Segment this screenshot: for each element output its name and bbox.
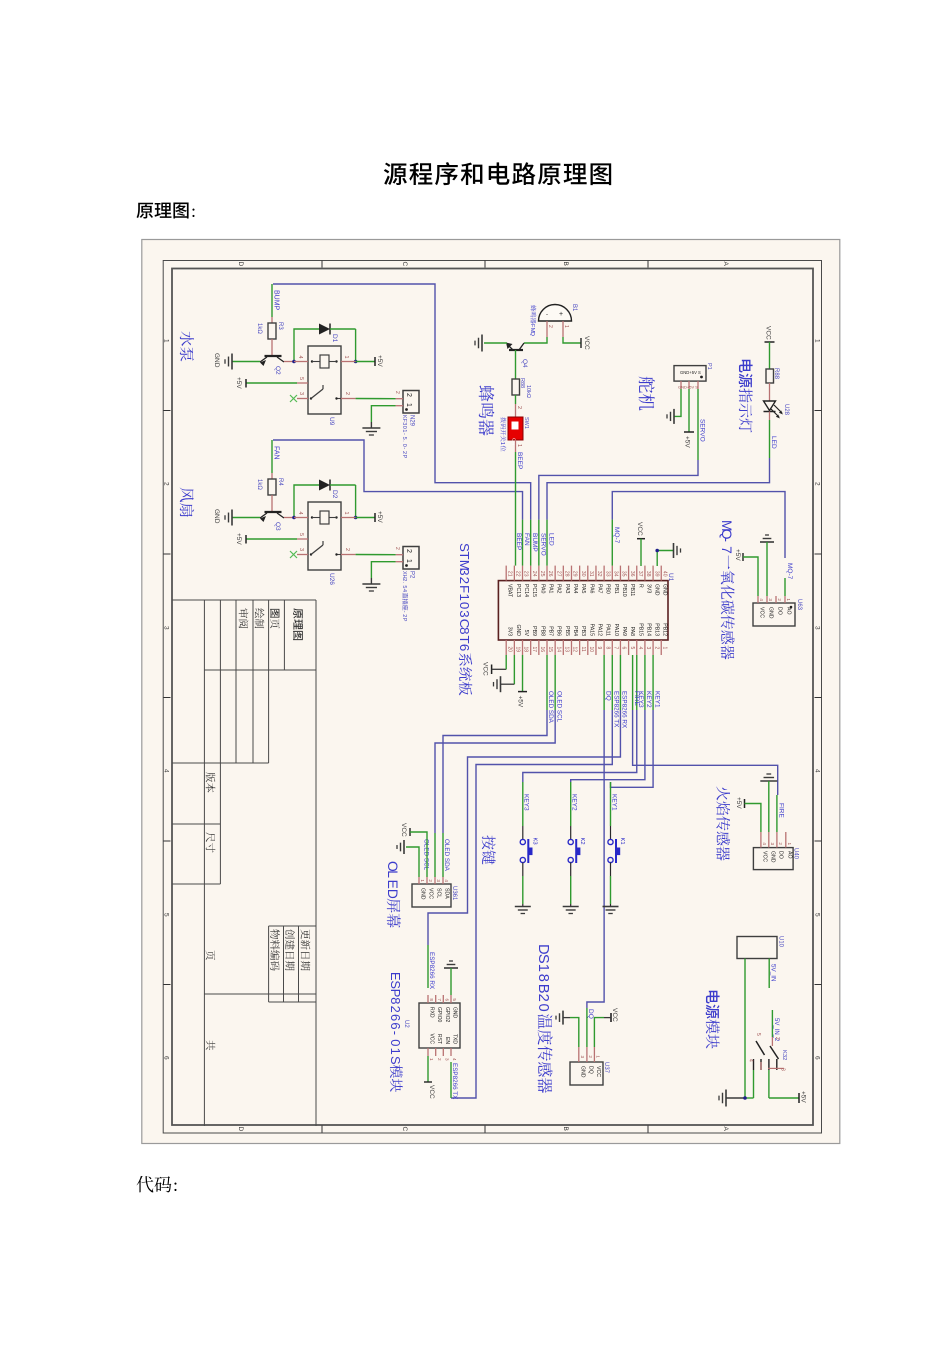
svg-text:SERVO: SERVO bbox=[699, 419, 706, 442]
svg-text:8: 8 bbox=[457, 627, 472, 634]
svg-text:2: 2 bbox=[394, 547, 400, 550]
svg-text:2: 2 bbox=[401, 614, 407, 617]
svg-text:GND+5V S: GND+5V S bbox=[678, 385, 698, 390]
svg-text:OLED SDA: OLED SDA bbox=[547, 691, 554, 724]
svg-text:2: 2 bbox=[437, 1058, 442, 1061]
svg-text:5: 5 bbox=[298, 533, 304, 536]
svg-text:FAN: FAN bbox=[523, 533, 530, 546]
svg-text:17: 17 bbox=[531, 647, 537, 653]
svg-text:2: 2 bbox=[401, 578, 407, 581]
svg-text:GND: GND bbox=[654, 584, 660, 596]
svg-text:0: 0 bbox=[535, 1004, 551, 1012]
svg-text:6: 6 bbox=[621, 647, 627, 650]
svg-text:1: 1 bbox=[499, 442, 505, 445]
svg-text:KEY1: KEY1 bbox=[653, 691, 660, 708]
svg-text:D: D bbox=[385, 889, 400, 899]
svg-text:3: 3 bbox=[298, 548, 304, 551]
svg-text:Q2: Q2 bbox=[274, 366, 281, 375]
svg-text:1: 1 bbox=[457, 594, 472, 601]
svg-text:3: 3 bbox=[580, 1055, 585, 1058]
svg-text:4: 4 bbox=[748, 1059, 754, 1062]
svg-text:L: L bbox=[385, 870, 400, 878]
svg-text:2: 2 bbox=[774, 1037, 780, 1040]
svg-text:PB14: PB14 bbox=[645, 623, 651, 636]
svg-text:4: 4 bbox=[814, 769, 821, 773]
svg-text::: : bbox=[173, 1175, 178, 1195]
svg-text:16: 16 bbox=[539, 647, 545, 653]
svg-text:GND: GND bbox=[662, 584, 668, 596]
svg-text:2: 2 bbox=[405, 393, 412, 397]
svg-text:3: 3 bbox=[298, 392, 304, 395]
svg-text:37: 37 bbox=[637, 571, 643, 577]
svg-text:D1: D1 bbox=[331, 334, 338, 343]
svg-text:33: 33 bbox=[604, 571, 610, 577]
svg-text:GND: GND bbox=[213, 353, 220, 368]
svg-text:3: 3 bbox=[163, 626, 170, 630]
svg-text:ESP8266 RX: ESP8266 RX bbox=[621, 691, 628, 729]
svg-text:3: 3 bbox=[645, 647, 651, 650]
svg-text:U37: U37 bbox=[603, 1062, 609, 1074]
svg-text:2: 2 bbox=[653, 647, 659, 650]
svg-text:35: 35 bbox=[621, 571, 627, 577]
svg-text:PA10: PA10 bbox=[613, 624, 619, 636]
svg-text:P: P bbox=[388, 989, 403, 998]
svg-text:T: T bbox=[457, 636, 472, 644]
svg-text:6: 6 bbox=[388, 1022, 403, 1029]
svg-text:PC14: PC14 bbox=[523, 584, 529, 597]
svg-text:P1: P1 bbox=[706, 363, 712, 370]
svg-text:5: 5 bbox=[452, 998, 457, 1001]
svg-text:R3: R3 bbox=[277, 322, 283, 330]
svg-text:-: - bbox=[401, 611, 407, 613]
svg-text:40: 40 bbox=[661, 571, 667, 577]
svg-text:B1: B1 bbox=[571, 304, 577, 312]
svg-text:30: 30 bbox=[580, 571, 586, 577]
svg-text:1: 1 bbox=[405, 403, 412, 407]
svg-text:PA8: PA8 bbox=[629, 627, 635, 637]
svg-text:1: 1 bbox=[388, 1048, 403, 1055]
svg-text:PA12: PA12 bbox=[596, 624, 602, 636]
svg-text:KEY2: KEY2 bbox=[571, 794, 578, 811]
svg-text:1: 1 bbox=[420, 879, 425, 882]
svg-text:DQ: DQ bbox=[587, 1066, 593, 1074]
svg-text:+5V: +5V bbox=[376, 511, 383, 523]
svg-text:U9: U9 bbox=[328, 417, 335, 426]
svg-text:2: 2 bbox=[457, 577, 472, 584]
svg-text:K3: K3 bbox=[531, 838, 537, 845]
svg-text:LED: LED bbox=[770, 436, 777, 449]
svg-text:+5V: +5V bbox=[684, 436, 691, 448]
svg-text:0: 0 bbox=[457, 602, 472, 609]
svg-text:36: 36 bbox=[629, 571, 635, 577]
svg-text:12: 12 bbox=[572, 647, 578, 653]
svg-text:21: 21 bbox=[506, 571, 512, 577]
svg-text:19: 19 bbox=[515, 647, 521, 653]
svg-text:1: 1 bbox=[163, 339, 170, 343]
svg-text:S: S bbox=[388, 1056, 403, 1065]
svg-text:38: 38 bbox=[645, 571, 651, 577]
svg-text:VCC: VCC bbox=[428, 888, 434, 899]
svg-text:2: 2 bbox=[588, 1055, 593, 1058]
svg-text:C: C bbox=[401, 262, 408, 267]
svg-text:3: 3 bbox=[814, 626, 821, 630]
svg-text:KEY1: KEY1 bbox=[610, 794, 617, 811]
svg-text:PC15: PC15 bbox=[531, 584, 537, 597]
svg-text:-: - bbox=[719, 537, 734, 542]
svg-text:PA15: PA15 bbox=[588, 624, 594, 636]
svg-text:PB11: PB11 bbox=[629, 584, 635, 596]
svg-text:VBAT: VBAT bbox=[507, 584, 513, 598]
svg-text:BEEP: BEEP bbox=[516, 452, 523, 469]
svg-text:2: 2 bbox=[401, 451, 407, 454]
svg-text:18: 18 bbox=[523, 647, 529, 653]
svg-text:10kΩ: 10kΩ bbox=[525, 385, 531, 398]
svg-text:B: B bbox=[535, 984, 551, 994]
svg-text:2: 2 bbox=[163, 482, 170, 486]
svg-text:1: 1 bbox=[596, 1055, 601, 1058]
svg-text:2: 2 bbox=[388, 1006, 403, 1013]
svg-text:DQ: DQ bbox=[587, 1009, 594, 1019]
svg-text:1: 1 bbox=[786, 598, 791, 601]
svg-text:4: 4 bbox=[759, 598, 764, 601]
svg-text:1kΩ: 1kΩ bbox=[256, 479, 262, 490]
svg-text:GND: GND bbox=[769, 851, 775, 863]
svg-text:GND: GND bbox=[452, 1007, 458, 1019]
svg-text:PA4: PA4 bbox=[572, 584, 578, 594]
svg-text:K1: K1 bbox=[619, 838, 625, 845]
svg-text:+5V: +5V bbox=[517, 696, 524, 708]
svg-text:DO: DO bbox=[777, 607, 783, 615]
svg-text:MQ-7: MQ-7 bbox=[786, 563, 793, 580]
svg-text:2: 2 bbox=[778, 842, 783, 845]
svg-text:R88: R88 bbox=[519, 378, 525, 388]
svg-text:14: 14 bbox=[555, 647, 561, 653]
svg-text:S: S bbox=[388, 980, 403, 989]
svg-text:U361: U361 bbox=[451, 886, 457, 901]
svg-text:PA11: PA11 bbox=[605, 624, 611, 636]
svg-text:R: R bbox=[637, 584, 643, 588]
svg-text:U10: U10 bbox=[778, 936, 784, 948]
svg-text:PC13: PC13 bbox=[515, 584, 521, 597]
svg-text:LED: LED bbox=[548, 533, 555, 546]
svg-text:PB4: PB4 bbox=[572, 626, 578, 636]
svg-text:8: 8 bbox=[388, 997, 403, 1004]
svg-text:PB15: PB15 bbox=[637, 623, 643, 636]
svg-text:3: 3 bbox=[457, 610, 472, 617]
svg-text:10: 10 bbox=[588, 647, 594, 653]
svg-text:1: 1 bbox=[535, 964, 551, 972]
svg-text:VCC: VCC bbox=[765, 326, 772, 340]
svg-text:B: B bbox=[562, 1127, 569, 1131]
svg-text:15: 15 bbox=[547, 647, 553, 653]
svg-text:EN: EN bbox=[444, 1037, 450, 1044]
svg-text:U63: U63 bbox=[796, 599, 802, 611]
svg-text:PB0: PB0 bbox=[605, 584, 611, 594]
svg-text:2: 2 bbox=[428, 879, 433, 882]
svg-text:T: T bbox=[457, 551, 472, 559]
svg-text:BUMP: BUMP bbox=[531, 533, 538, 552]
svg-text:R88: R88 bbox=[773, 368, 779, 380]
svg-text:U40: U40 bbox=[793, 848, 799, 860]
svg-text:-: - bbox=[388, 1031, 403, 1035]
svg-text:SCL: SCL bbox=[436, 888, 442, 898]
svg-text:31: 31 bbox=[588, 571, 594, 577]
svg-text:1: 1 bbox=[405, 559, 412, 563]
svg-text:VCC: VCC bbox=[636, 522, 643, 536]
svg-text:Q3: Q3 bbox=[274, 522, 281, 531]
svg-text:2: 2 bbox=[547, 325, 553, 328]
svg-text:2: 2 bbox=[344, 392, 350, 395]
svg-text:VCC: VCC bbox=[428, 1085, 435, 1099]
svg-text:4: 4 bbox=[297, 512, 303, 515]
svg-text:7: 7 bbox=[719, 546, 734, 554]
svg-text:FAN: FAN bbox=[273, 446, 280, 460]
svg-text:PA6: PA6 bbox=[588, 584, 594, 594]
svg-text:PA2: PA2 bbox=[556, 584, 562, 594]
svg-text:8: 8 bbox=[604, 647, 610, 650]
svg-text:5: 5 bbox=[755, 1033, 761, 1036]
svg-text:PA3: PA3 bbox=[564, 584, 570, 594]
svg-text:2: 2 bbox=[777, 598, 782, 601]
svg-text:A: A bbox=[722, 262, 729, 267]
svg-text:MQ-7: MQ-7 bbox=[613, 527, 620, 544]
svg-text:34: 34 bbox=[612, 571, 618, 577]
svg-text:7: 7 bbox=[437, 998, 442, 1001]
svg-text:20: 20 bbox=[506, 647, 512, 653]
svg-text:C: C bbox=[401, 1127, 408, 1132]
svg-text:0: 0 bbox=[401, 444, 407, 447]
svg-text:VCC: VCC bbox=[400, 823, 407, 837]
svg-text:6: 6 bbox=[163, 1056, 170, 1060]
svg-text:K32: K32 bbox=[781, 1050, 787, 1060]
svg-text:PA1: PA1 bbox=[548, 584, 554, 594]
svg-text:GND: GND bbox=[579, 1066, 585, 1078]
svg-text:5V: 5V bbox=[523, 630, 529, 637]
svg-text:23: 23 bbox=[523, 571, 529, 577]
svg-text:PB9: PB9 bbox=[531, 626, 537, 636]
svg-text:5: 5 bbox=[401, 585, 407, 588]
svg-text:27: 27 bbox=[555, 571, 561, 577]
svg-text:VCC: VCC bbox=[759, 607, 765, 618]
svg-text:D2: D2 bbox=[331, 490, 338, 499]
svg-text:6: 6 bbox=[457, 644, 472, 651]
svg-text:PB7: PB7 bbox=[548, 626, 554, 636]
svg-text:GPIO2: GPIO2 bbox=[444, 1007, 450, 1023]
svg-text:DO: DO bbox=[777, 851, 783, 859]
svg-text:8: 8 bbox=[535, 974, 551, 982]
svg-text:RST: RST bbox=[436, 1034, 442, 1044]
svg-text:22: 22 bbox=[515, 571, 521, 577]
svg-text:1: 1 bbox=[661, 647, 667, 650]
svg-text:1: 1 bbox=[343, 356, 349, 359]
svg-text:P: P bbox=[401, 455, 407, 459]
svg-text:PB1: PB1 bbox=[613, 584, 619, 594]
svg-text:3: 3 bbox=[445, 1058, 450, 1061]
svg-text:3: 3 bbox=[457, 568, 472, 575]
svg-text:29: 29 bbox=[572, 571, 578, 577]
svg-text:+5V: +5V bbox=[235, 377, 242, 389]
svg-text:SERVO: SERVO bbox=[539, 533, 546, 556]
svg-text:Q: Q bbox=[529, 332, 535, 337]
svg-text:OLED SDA: OLED SDA bbox=[443, 839, 450, 872]
svg-text:A: A bbox=[722, 1127, 729, 1132]
svg-text:P: P bbox=[401, 618, 407, 622]
svg-text:PB10: PB10 bbox=[621, 584, 627, 597]
svg-text:S: S bbox=[535, 954, 551, 964]
svg-text:1: 1 bbox=[343, 512, 349, 515]
svg-text:1: 1 bbox=[563, 325, 569, 328]
svg-text:5: 5 bbox=[163, 913, 170, 917]
svg-text:6: 6 bbox=[814, 1056, 821, 1060]
svg-text:PA5: PA5 bbox=[580, 584, 586, 594]
svg-text:RXD: RXD bbox=[429, 1007, 435, 1018]
svg-text:ESP8266 RX: ESP8266 RX bbox=[428, 952, 435, 990]
svg-text:ESP8266 TX: ESP8266 TX bbox=[612, 691, 619, 728]
svg-text:5: 5 bbox=[298, 377, 304, 380]
svg-text:5: 5 bbox=[401, 437, 407, 440]
svg-text:P2: P2 bbox=[409, 571, 415, 579]
svg-text:+5V: +5V bbox=[800, 1091, 807, 1103]
svg-text:PB3: PB3 bbox=[580, 626, 586, 636]
svg-text:VCC: VCC bbox=[482, 662, 489, 676]
svg-text:GND: GND bbox=[420, 888, 426, 900]
svg-text:2: 2 bbox=[535, 994, 551, 1002]
svg-text:1: 1 bbox=[429, 1058, 434, 1061]
svg-text:24: 24 bbox=[531, 571, 537, 577]
svg-text:Q4: Q4 bbox=[521, 359, 528, 368]
svg-text:U28: U28 bbox=[783, 404, 789, 416]
svg-text:3: 3 bbox=[770, 842, 775, 845]
svg-text:VCC: VCC bbox=[761, 851, 767, 862]
svg-text:+5V: +5V bbox=[376, 355, 383, 367]
svg-text:39: 39 bbox=[653, 571, 659, 577]
svg-text:3: 3 bbox=[401, 422, 407, 425]
svg-text:1: 1 bbox=[516, 444, 522, 447]
svg-text:GND+5V S: GND+5V S bbox=[680, 370, 701, 375]
svg-text:PB5: PB5 bbox=[564, 626, 570, 636]
svg-text:SW1: SW1 bbox=[523, 417, 529, 429]
svg-text:K2: K2 bbox=[579, 838, 585, 845]
svg-text:4: 4 bbox=[452, 1058, 457, 1061]
svg-text:2: 2 bbox=[344, 548, 350, 551]
svg-text:VCC: VCC bbox=[611, 1008, 618, 1022]
svg-text:PB13: PB13 bbox=[654, 623, 660, 636]
svg-text:28: 28 bbox=[564, 571, 570, 577]
svg-text:KEY2: KEY2 bbox=[645, 691, 652, 708]
svg-text:GND: GND bbox=[213, 509, 220, 524]
svg-text:D: D bbox=[237, 262, 244, 267]
svg-text:B: B bbox=[562, 262, 569, 266]
svg-text:25: 25 bbox=[539, 571, 545, 577]
svg-text:4: 4 bbox=[297, 356, 303, 359]
svg-text:VCC: VCC bbox=[595, 1066, 601, 1077]
svg-text:11: 11 bbox=[580, 647, 586, 652]
svg-text:1: 1 bbox=[814, 339, 821, 343]
svg-text:2: 2 bbox=[814, 482, 821, 486]
svg-text:PA9: PA9 bbox=[621, 627, 627, 637]
svg-text:OLED SCL: OLED SCL bbox=[555, 691, 562, 723]
svg-text:4: 4 bbox=[401, 589, 407, 592]
svg-text:F: F bbox=[457, 585, 472, 593]
svg-text:1: 1 bbox=[787, 842, 792, 845]
svg-text:0: 0 bbox=[401, 426, 407, 429]
svg-text:PA0: PA0 bbox=[539, 584, 545, 594]
svg-text:13: 13 bbox=[564, 647, 570, 653]
svg-text:6: 6 bbox=[388, 1014, 403, 1021]
svg-text:PB8: PB8 bbox=[539, 626, 545, 636]
svg-text:3V3: 3V3 bbox=[507, 627, 513, 636]
svg-text:3: 3 bbox=[780, 1068, 786, 1071]
svg-text:OLED SCL: OLED SCL bbox=[423, 839, 430, 871]
svg-text:U26: U26 bbox=[328, 573, 335, 585]
svg-text:AO: AO bbox=[786, 851, 792, 859]
svg-text:PB12: PB12 bbox=[662, 623, 668, 636]
svg-text:E: E bbox=[385, 880, 400, 889]
svg-text:-: - bbox=[546, 312, 548, 318]
svg-text:FIRE: FIRE bbox=[778, 803, 785, 818]
svg-text:PB6: PB6 bbox=[556, 626, 562, 636]
svg-text:-: - bbox=[401, 433, 407, 435]
svg-text:5: 5 bbox=[814, 913, 821, 917]
svg-text:1: 1 bbox=[401, 429, 407, 432]
svg-text:2: 2 bbox=[516, 406, 522, 409]
svg-text:+5V: +5V bbox=[735, 797, 742, 809]
svg-text:1kΩ: 1kΩ bbox=[256, 323, 262, 334]
svg-text:32: 32 bbox=[596, 571, 602, 577]
svg-text:0: 0 bbox=[388, 1039, 403, 1046]
svg-text:VCC: VCC bbox=[429, 1033, 435, 1044]
svg-text:BUMP: BUMP bbox=[273, 290, 280, 311]
svg-text:N29: N29 bbox=[409, 415, 415, 427]
svg-text:VCC: VCC bbox=[583, 336, 590, 350]
svg-text:4: 4 bbox=[762, 842, 767, 845]
svg-text:8: 8 bbox=[429, 998, 434, 1001]
svg-text:+5V: +5V bbox=[734, 549, 741, 561]
svg-text:R4: R4 bbox=[277, 478, 283, 486]
svg-text:9: 9 bbox=[596, 647, 602, 650]
svg-text:GPIO0: GPIO0 bbox=[436, 1007, 442, 1023]
svg-text:3: 3 bbox=[436, 879, 441, 882]
svg-text:SDA: SDA bbox=[444, 888, 450, 899]
svg-text:3: 3 bbox=[768, 598, 773, 601]
svg-text:KEY3: KEY3 bbox=[523, 794, 530, 811]
svg-text:7: 7 bbox=[612, 647, 618, 650]
svg-text:5V_IN: 5V_IN bbox=[770, 964, 777, 982]
svg-text:GND: GND bbox=[515, 624, 521, 636]
svg-text:D: D bbox=[237, 1127, 244, 1132]
svg-text::: : bbox=[191, 201, 196, 221]
svg-text:PA7: PA7 bbox=[596, 584, 602, 594]
svg-text:6: 6 bbox=[445, 998, 450, 1001]
svg-text:KEY3: KEY3 bbox=[637, 691, 644, 708]
svg-text:DQ: DQ bbox=[604, 691, 611, 701]
svg-text:26: 26 bbox=[547, 571, 553, 577]
svg-text:4: 4 bbox=[637, 647, 643, 650]
svg-text:4: 4 bbox=[163, 769, 170, 773]
svg-text:TXD: TXD bbox=[452, 1034, 458, 1044]
svg-text:GND: GND bbox=[768, 607, 774, 619]
svg-text:-: - bbox=[401, 447, 407, 449]
svg-text:2: 2 bbox=[394, 391, 400, 394]
svg-text:ESP8266 TX: ESP8266 TX bbox=[451, 1063, 458, 1100]
svg-text:4: 4 bbox=[444, 879, 449, 882]
svg-text:+5V: +5V bbox=[235, 533, 242, 545]
svg-text:2: 2 bbox=[405, 549, 412, 553]
svg-text:+: + bbox=[559, 311, 563, 318]
svg-text:5: 5 bbox=[629, 647, 635, 650]
svg-text:3V3: 3V3 bbox=[645, 584, 651, 593]
